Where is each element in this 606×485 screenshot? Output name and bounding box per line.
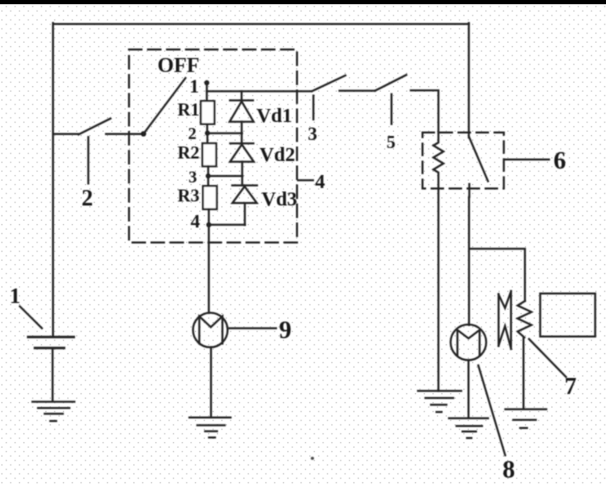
ground (below battery) [32, 402, 74, 421]
resistor R2 [202, 143, 216, 166]
diode Vd1 cathode feed wire [241, 91, 243, 100]
motor M8 'M' mark [457, 330, 479, 355]
top scan border bar [0, 0, 606, 4]
svg-text:Vd1: Vd1 [257, 105, 293, 127]
label 7 pointer line [529, 339, 566, 377]
wire: node 4 branch to diode column [209, 224, 245, 226]
svg-text:9: 9 [279, 317, 292, 344]
transducer (bowtie) symbol [499, 291, 511, 349]
ground (below motor 8) [449, 418, 488, 438]
label 1 pointer line [20, 306, 42, 328]
svg-text:7: 7 [565, 374, 577, 400]
svg-text:Vd3: Vd3 [262, 189, 298, 211]
selector pivot junction dot [141, 131, 146, 136]
wire: left vertical from top rail to battery [52, 23, 54, 337]
wire: Vd3 anode down to node 4 rail [244, 203, 246, 225]
svg-text:4: 4 [315, 171, 325, 193]
svg-text:3: 3 [308, 124, 318, 145]
motor M9 'M' mark [199, 316, 222, 343]
wire: Vd2 anode down to Vd3 cathode [241, 162, 243, 186]
dashed box 6 [423, 133, 504, 189]
svg-text:3: 3 [189, 167, 198, 186]
svg-text:5: 5 [387, 132, 396, 152]
wire: node 1 vertical down to R1 [206, 83, 208, 101]
wire: motor 9 down to ground [210, 347, 212, 417]
motor M9 circle [193, 313, 228, 348]
svg-text:R1: R1 [178, 99, 200, 119]
svg-text:8: 8 [503, 457, 516, 484]
ground (below box 6 resistor) [418, 391, 461, 412]
battery cell 1: long plate [28, 336, 73, 339]
box 7 (load block) [540, 294, 595, 337]
wire: R1 to node 2 [206, 124, 208, 133]
svg-text:1: 1 [10, 283, 21, 308]
svg-text:Vd2: Vd2 [260, 144, 296, 166]
switch S5 blade [375, 75, 406, 91]
wire: motor 8 down to ground [468, 360, 470, 418]
svg-text:4: 4 [191, 212, 201, 233]
battery cell 1: short plate [35, 347, 64, 350]
wire: battery to ground [52, 349, 54, 402]
wire: node 3 to R3 [207, 176, 209, 186]
diode Vd1 cathode bar [230, 99, 253, 101]
wire: box 6 contact down to motor 8 [468, 197, 470, 325]
node 3 dot [206, 174, 211, 179]
wire: top rail [53, 23, 469, 25]
label 8 pointer line [478, 365, 505, 455]
wire: rail from S3 to S5 [340, 90, 376, 92]
node 4 dot [206, 222, 211, 227]
switch S3 blade [312, 75, 345, 91]
wire: right vertical from top rail into box 6 [468, 23, 470, 138]
wire: node 3 branch to diode column [208, 175, 242, 177]
wire: Vd1 anode down to Vd2 cathode [241, 122, 243, 144]
svg-text:R2: R2 [178, 143, 200, 163]
svg-text:OFF: OFF [158, 53, 200, 77]
svg-text:1: 1 [190, 77, 200, 98]
wire: R3 to node 4 [208, 209, 210, 225]
node 1 dot [204, 80, 209, 85]
diode Vd3 cathode bar [232, 184, 257, 186]
resistor R1 [201, 101, 215, 124]
resistor 7 zigzag [518, 301, 532, 338]
svg-text:6: 6 [554, 148, 567, 175]
wire: rail from node column to switch 3 [207, 90, 311, 92]
diode Vd3 triangle [232, 186, 256, 203]
label 6 pointer line [506, 159, 550, 161]
motor M8 circle [451, 325, 487, 361]
diode Vd2 cathode bar [230, 142, 253, 144]
diode Vd2 triangle [230, 144, 254, 161]
svg-text:2: 2 [188, 124, 197, 143]
ink speck [311, 457, 314, 460]
wire: rail from S5 to corner into box 6 [411, 90, 439, 132]
relay switch bottom contact stub [468, 184, 470, 197]
svg-text:2: 2 [82, 185, 94, 210]
diode Vd1 triangle [230, 101, 254, 121]
wire: resistor 7 down to ground [523, 338, 525, 410]
resistor (zigzag) inside box 6 [433, 133, 443, 189]
relay switch blade inside box 6 [469, 138, 488, 182]
label 9 pointer line [230, 327, 277, 329]
wire: R2 to node 3 [207, 166, 209, 176]
switch S2: wire from left vertical to hinge [53, 133, 79, 135]
wire: node 4 down to motor 9 [208, 225, 210, 313]
label 2 pointer line [87, 137, 89, 184]
wire: branch to resistor 7 [469, 249, 525, 301]
ground (below resistor 7) [505, 409, 546, 428]
wire: box-6 resistor down to ground [437, 189, 439, 392]
dashed box 4 [129, 50, 297, 243]
ground (below motor 9) [189, 418, 230, 438]
node 2 dot [205, 131, 210, 136]
switch S2 blade [79, 119, 111, 135]
wire: node 2 to R2 [206, 133, 208, 143]
svg-text:R3: R3 [178, 186, 200, 206]
selector blade (OFF position switch) [144, 78, 186, 134]
resistor R3 [203, 186, 217, 209]
switch S3 contact tick [312, 96, 314, 120]
wire: node 2 branch to diode column [207, 132, 242, 134]
label 4 pointer line [298, 179, 313, 181]
switch S5 contact tick [391, 94, 393, 124]
switch S2: wire from blade to selector pivot [106, 133, 144, 135]
